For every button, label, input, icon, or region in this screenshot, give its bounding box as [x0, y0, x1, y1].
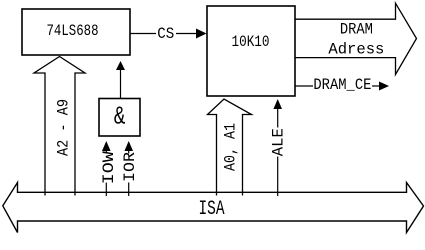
arrowhead DRAM_CE	[379, 82, 389, 91]
svg-text:A2 - A9: A2 - A9	[55, 99, 73, 156]
ISA bus	[3, 183, 424, 233]
svg-text:&: &	[114, 102, 126, 131]
wire IOW from bus to AND gate	[105, 150, 107, 193]
block arrow A2-A9 into 74LS688	[34, 57, 85, 196]
label IOR	[122, 154, 135, 183]
svg-text:ISA: ISA	[199, 198, 225, 221]
label CS	[156, 25, 176, 40]
block arrow DRAM Address out of 10K10	[295, 3, 417, 74]
wire IOR stub into bus	[128, 192, 130, 196]
svg-text:IOR: IOR	[121, 152, 139, 182]
svg-text:A0, A1: A0, A1	[222, 123, 240, 171]
svg-text:CS: CS	[157, 25, 174, 43]
wire ALE stub into bus	[277, 192, 279, 196]
wire IOW stub into bus	[105, 192, 107, 196]
svg-text:74LS688: 74LS688	[47, 22, 99, 40]
comparator U1 74LS688 box	[22, 9, 130, 55]
wire DRAM_CE from 10K10	[295, 85, 313, 87]
wire CS from 74LS688 to 10K10	[130, 33, 198, 35]
arrowhead IOW into AND	[102, 141, 111, 151]
block arrow A0,A1 into 10K10	[208, 99, 252, 196]
arrowhead IOR into AND	[124, 141, 133, 151]
svg-text:Adress: Adress	[328, 41, 384, 59]
arrowhead ALE into 10K10	[273, 99, 282, 109]
wire from AND gate up to 74LS688	[120, 66, 122, 99]
wire DRAM_CE arrow	[372, 85, 381, 87]
wire IOR from bus to AND gate	[128, 150, 130, 193]
address decoder U2 10K10 box	[207, 6, 295, 96]
svg-text:DRAM_CE: DRAM_CE	[313, 76, 371, 94]
gate U3 AND box	[99, 99, 140, 137]
svg-text:ALE: ALE	[270, 128, 288, 156]
arrowhead CS into 10K10	[196, 29, 207, 39]
svg-text:10K10: 10K10	[232, 33, 270, 51]
svg-text:DRAM: DRAM	[340, 21, 373, 39]
wire ALE from bus to 10K10	[277, 107, 279, 193]
svg-text:IOW: IOW	[100, 151, 118, 184]
arrowhead into 74LS688	[116, 61, 125, 70]
label IOW	[100, 153, 113, 183]
label ALE	[271, 128, 284, 157]
